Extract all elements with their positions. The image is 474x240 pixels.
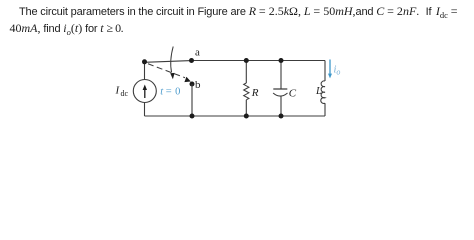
svg-text:a: a — [195, 47, 200, 59]
svg-text:b: b — [195, 79, 201, 91]
C bottom dot — [279, 114, 284, 119]
switch throw arrowhead — [184, 77, 190, 82]
svg-text:t = 0: t = 0 — [160, 87, 180, 98]
junction dot pivot — [142, 59, 147, 64]
problem text line 2 — [10, 21, 124, 37]
R top dot — [244, 58, 249, 63]
wire: bottom rail — [145, 115, 326, 117]
capacitor C top plate — [273, 88, 287, 90]
svg-text:R: R — [251, 87, 259, 99]
wire: left rail top (pivot to source) — [144, 62, 146, 80]
C top dot — [279, 58, 284, 63]
wire: C branch bottom — [280, 96, 282, 116]
bottom dot below b — [190, 114, 195, 119]
node b dot — [190, 82, 195, 87]
svg-text:L: L — [315, 86, 322, 97]
wire: R branch bottom — [245, 100, 247, 116]
svg-text:dc: dc — [121, 89, 129, 98]
wire: R branch top — [245, 61, 247, 84]
problem text line 1 — [19, 4, 458, 20]
resistor R zigzag — [244, 83, 249, 100]
R bottom dot — [244, 114, 249, 119]
wire: b down to bottom rail — [191, 84, 193, 116]
inductor L coil — [321, 81, 325, 104]
wire: right rail upper segment — [324, 61, 326, 82]
switch blade (pivot to a) — [145, 61, 192, 63]
svg-text:io: io — [334, 64, 341, 76]
current source arrow — [144, 89, 146, 98]
io current arrow (blue) — [329, 60, 331, 75]
wire: right rail lower segment — [324, 103, 326, 116]
svg-text:C: C — [289, 87, 297, 99]
capacitor C curved plate — [273, 93, 287, 96]
current source Idc circle — [133, 80, 156, 103]
switch dashed throw to b — [148, 64, 185, 78]
wire: top rail from node a to top-right corner — [192, 60, 326, 62]
swoosh arrowhead — [170, 73, 174, 79]
switch motion swoosh — [171, 47, 174, 73]
wire: C branch top — [280, 61, 282, 90]
wire: left rail bottom (source to bottom rail) — [144, 103, 146, 117]
node a dot — [189, 58, 194, 63]
